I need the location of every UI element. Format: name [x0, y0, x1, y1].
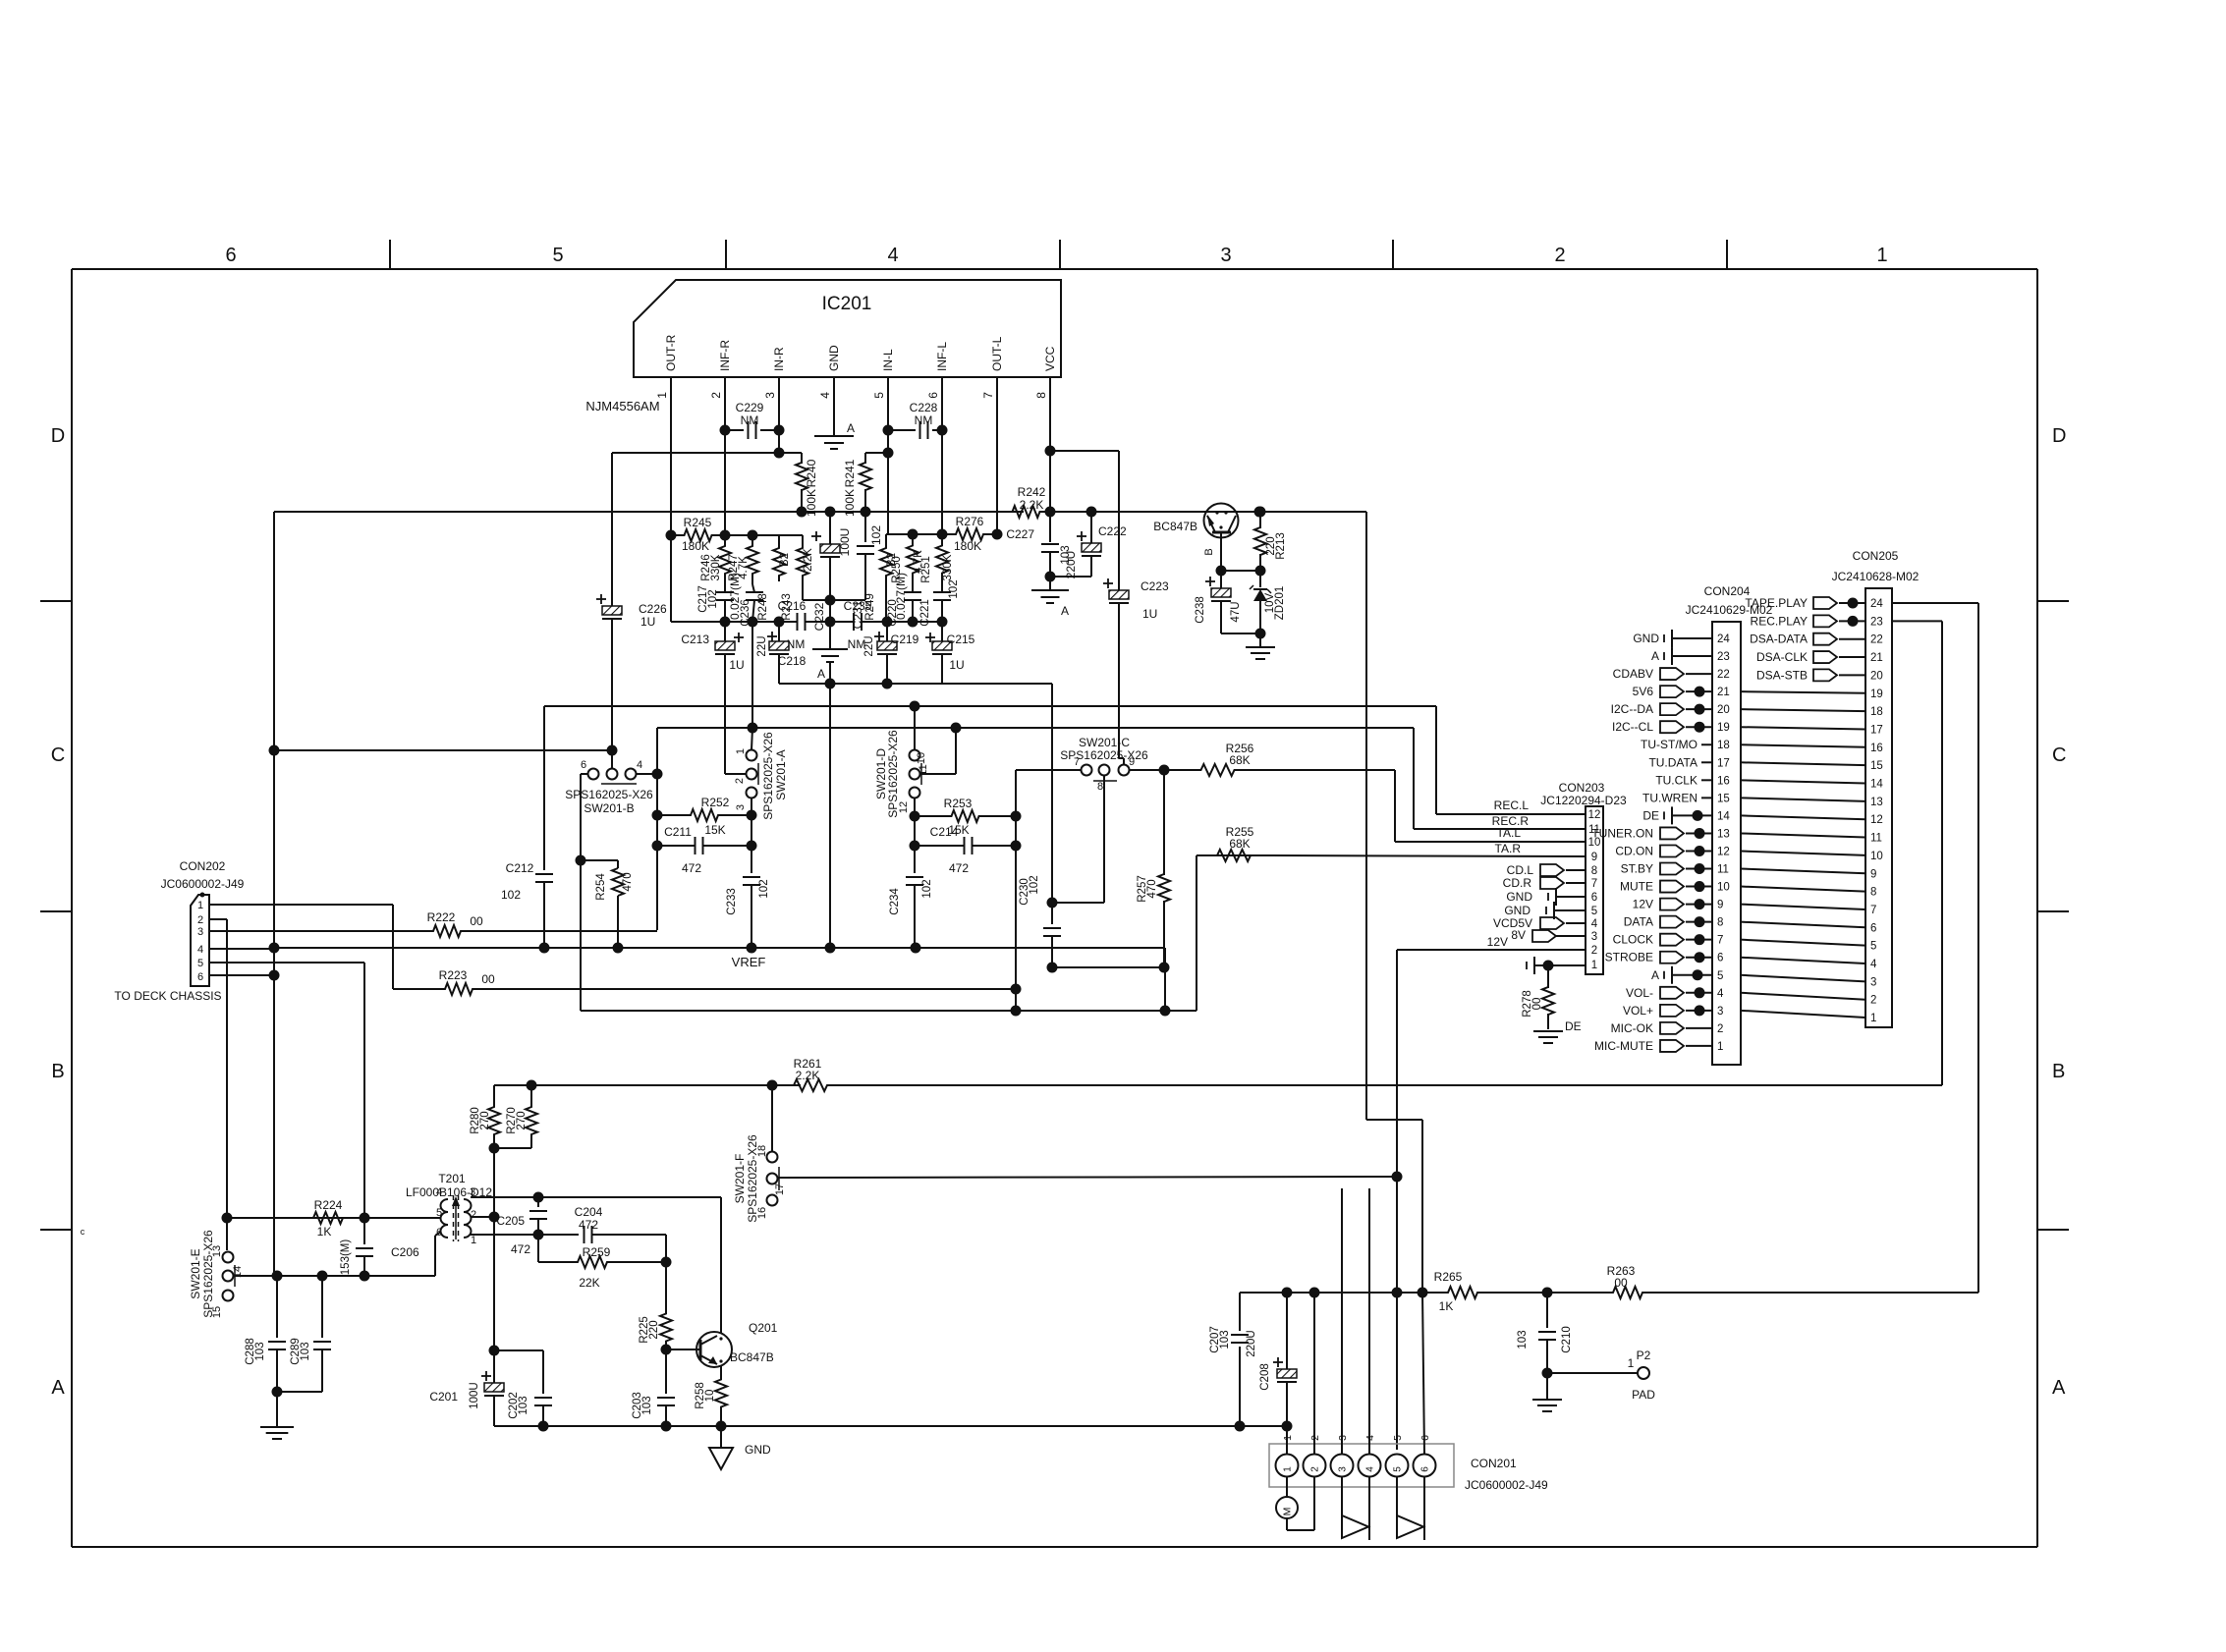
svg-text:9: 9	[1870, 868, 1876, 880]
svg-text:103: 103	[254, 1342, 266, 1360]
svg-text:472: 472	[682, 861, 701, 875]
svg-text:VCC: VCC	[1043, 346, 1057, 371]
svg-text:16: 16	[1870, 743, 1883, 754]
wire row 764	[274, 749, 612, 751]
wire pin1 OUT-R down	[670, 377, 672, 622]
svg-text:DATA: DATA	[1624, 915, 1653, 929]
svg-text:1U: 1U	[949, 658, 964, 672]
svg-text:3: 3	[1870, 976, 1876, 988]
wire SW-E p14 row	[234, 1275, 436, 1277]
capacitor C219 22U	[874, 635, 884, 637]
svg-text:R222: R222	[427, 910, 456, 924]
svg-text:1: 1	[655, 392, 669, 399]
wire R255 to TA.R	[1271, 855, 1586, 856]
svg-text:C210: C210	[1561, 1326, 1573, 1353]
svg-text:11: 11	[1870, 833, 1882, 845]
wire R265 row	[1240, 1292, 1420, 1294]
wire CON204 p18 to CON205 p16	[1741, 744, 1865, 747]
connector CON201	[1269, 1444, 1454, 1487]
capacitor C207 103	[1239, 1293, 1241, 1331]
svg-text:8: 8	[1870, 887, 1876, 899]
ground GND arrow	[720, 1426, 722, 1448]
capacitor C203 103	[665, 1349, 667, 1394]
svg-text:7: 7	[1591, 878, 1597, 890]
svg-text:REC.PLAY: REC.PLAY	[1751, 614, 1808, 628]
transistor Q201 BC847B	[696, 1332, 732, 1367]
wire VCC node to C223 line	[1050, 450, 1119, 452]
svg-text:14: 14	[1717, 810, 1730, 822]
wire SW-B p6 col down	[576, 855, 586, 866]
wire IN-R node row	[612, 452, 779, 454]
wire CON204 p7 to CON205 p5	[1741, 940, 1865, 946]
svg-text:472: 472	[579, 1218, 598, 1232]
svg-text:JC1220294-D23: JC1220294-D23	[1540, 794, 1627, 807]
svg-text:470: 470	[622, 872, 634, 891]
connector CON202	[191, 895, 209, 986]
svg-text:IN-R: IN-R	[772, 347, 786, 371]
resistor R224 1K	[295, 1212, 362, 1224]
svg-text:00: 00	[1614, 1276, 1628, 1290]
svg-text:CON203: CON203	[1559, 781, 1605, 795]
svg-text:ZD201: ZD201	[1274, 586, 1286, 621]
wire T201 pin2	[471, 1216, 494, 1218]
svg-text:C231: C231	[851, 600, 864, 629]
svg-text:SPS162025-X26: SPS162025-X26	[565, 788, 653, 801]
svg-text:103: 103	[518, 1396, 529, 1414]
wire R241 jog to pin5	[865, 452, 888, 454]
svg-text:1: 1	[471, 1235, 476, 1246]
wire CON204 p6 to CON205 p4	[1741, 958, 1865, 964]
svg-text:B: B	[1203, 548, 1215, 555]
svg-text:NM: NM	[915, 413, 933, 427]
svg-text:CD.ON: CD.ON	[1615, 844, 1653, 857]
svg-text:19: 19	[1717, 722, 1730, 734]
svg-text:23: 23	[1717, 651, 1730, 663]
svg-text:SPS162025-X26: SPS162025-X26	[1060, 748, 1148, 762]
wire CON204 p20 to CON205 p18	[1741, 709, 1865, 711]
capacitor C215 1U	[925, 636, 935, 638]
wire A column to VREF	[829, 684, 831, 948]
svg-text:5: 5	[197, 958, 203, 969]
svg-text:C238: C238	[1195, 596, 1206, 624]
wire CON204 p5 to CON205 p3	[1741, 975, 1865, 982]
wire SW-F p18	[771, 1085, 773, 1152]
svg-text:9: 9	[1717, 900, 1723, 911]
border frame and grid reference labels	[72, 268, 2037, 270]
capacitor C233 102	[751, 815, 752, 846]
svg-text:D: D	[51, 425, 65, 447]
capacitor C218 22U	[767, 635, 777, 637]
svg-text:I2C--DA: I2C--DA	[1611, 702, 1653, 716]
svg-text:13: 13	[1717, 828, 1730, 840]
svg-text:3: 3	[1220, 245, 1231, 266]
svg-text:103: 103	[300, 1342, 311, 1360]
svg-text:3: 3	[763, 392, 777, 399]
svg-text:CDABV: CDABV	[1613, 667, 1653, 681]
svg-text:102: 102	[1029, 875, 1040, 894]
svg-text:4: 4	[1591, 918, 1598, 930]
capacitor C235 NM	[853, 613, 855, 631]
svg-text:C: C	[2052, 744, 2066, 766]
svg-text:C211: C211	[664, 825, 692, 839]
svg-text:18: 18	[1717, 740, 1730, 751]
node R256 left	[1159, 765, 1170, 776]
wire SW-A p3 down	[751, 798, 752, 816]
row 544 right	[886, 533, 942, 535]
svg-text:C208: C208	[1259, 1363, 1271, 1391]
svg-text:JC0600002-J49: JC0600002-J49	[1465, 1478, 1548, 1492]
svg-text:VOL-: VOL-	[1626, 986, 1653, 1000]
wire SW-B p4 up	[656, 728, 658, 930]
capacitor C238 47U	[1220, 571, 1222, 588]
svg-text:1: 1	[735, 748, 747, 754]
svg-text:6: 6	[197, 971, 203, 983]
svg-text:180K: 180K	[682, 539, 709, 553]
svg-text:5: 5	[872, 392, 886, 399]
svg-text:GND: GND	[1633, 632, 1659, 645]
zener diode ZD201 10V	[1259, 571, 1261, 587]
svg-text:47U: 47U	[1230, 601, 1242, 622]
wire T201 pin6	[435, 1232, 441, 1236]
svg-text:CON201: CON201	[1471, 1457, 1517, 1470]
switch SW201-E	[223, 1252, 234, 1263]
svg-text:4: 4	[197, 944, 203, 956]
head arrow 1	[1341, 1477, 1343, 1516]
wire TAPE.PLAY right	[1892, 602, 1978, 604]
svg-text:470: 470	[1146, 879, 1158, 898]
wire pin3 IN-R down	[778, 377, 780, 453]
resistor R253 15K	[915, 810, 1016, 822]
svg-text:SPS162025-X26: SPS162025-X26	[886, 730, 900, 818]
capacitor C227 103	[1049, 512, 1051, 542]
wire SW-F p17 row	[778, 1177, 1398, 1178]
wire pin5 IN-L down	[887, 377, 889, 453]
row 696 A-net	[779, 683, 1052, 685]
resistor R241 100K	[864, 453, 866, 464]
wire rec rail	[494, 1084, 801, 1086]
capacitor C217 102	[716, 591, 734, 593]
svg-text:10: 10	[1870, 851, 1883, 862]
svg-text:IC201: IC201	[822, 294, 872, 314]
op-amp IC201 NJM4556AM body with pin labels	[634, 280, 1061, 377]
svg-text:3: 3	[1591, 931, 1597, 943]
svg-text:4: 4	[637, 759, 642, 771]
svg-text:68K: 68K	[1229, 837, 1250, 851]
capacitor C213 1U	[734, 636, 744, 638]
svg-text:TU.CLK: TU.CLK	[1655, 773, 1697, 787]
wire SW-C p8 down	[1103, 776, 1105, 904]
svg-text:A: A	[51, 1377, 65, 1399]
svg-text:STROBE: STROBE	[1605, 951, 1653, 964]
svg-text:R224: R224	[314, 1198, 343, 1212]
svg-text:103: 103	[641, 1396, 653, 1414]
svg-text:B: B	[2052, 1061, 2065, 1082]
wire R243 top	[779, 534, 803, 536]
svg-text:100U: 100U	[838, 528, 852, 557]
svg-text:R241: R241	[843, 459, 857, 487]
svg-text:DSA-STB: DSA-STB	[1756, 668, 1808, 682]
wire R280 R270 bottoms	[493, 1139, 495, 1217]
svg-text:330K: 330K	[710, 554, 722, 580]
ground below R278	[1533, 1030, 1563, 1032]
svg-text:3: 3	[1338, 1466, 1349, 1472]
svg-text:BC847B: BC847B	[730, 1350, 774, 1364]
svg-text:472: 472	[949, 861, 969, 875]
resistor R225 220	[665, 1262, 667, 1308]
svg-text:R242: R242	[1018, 485, 1046, 499]
capacitor C214 472	[915, 845, 964, 847]
svg-text:8: 8	[1591, 865, 1597, 877]
capacitor C226 1U	[611, 453, 613, 606]
wire R245 row ext	[725, 534, 779, 536]
wire SW-D p11 right	[920, 773, 957, 775]
resistor R258 10	[715, 1375, 727, 1411]
svg-text:DE: DE	[1642, 808, 1659, 822]
svg-text:R252: R252	[701, 796, 730, 809]
svg-text:C223: C223	[1141, 579, 1169, 593]
wire pin2 INF-R down	[724, 377, 726, 535]
resistor R257 470	[1163, 770, 1165, 875]
svg-text:A: A	[847, 421, 855, 435]
svg-text:SW201-E: SW201-E	[189, 1248, 202, 1298]
capacitor C288 103	[276, 1276, 278, 1338]
wire CON201 p2 col	[1313, 1293, 1315, 1455]
wire CON201 p6 col	[1422, 1293, 1424, 1455]
svg-text:PAD: PAD	[1632, 1388, 1655, 1402]
svg-text:12: 12	[1870, 814, 1883, 826]
capacitor C211 472	[657, 845, 695, 847]
resistor R278 00	[1547, 965, 1549, 988]
svg-text:VOL+: VOL+	[1623, 1004, 1653, 1018]
svg-text:A: A	[2052, 1377, 2066, 1399]
capacitor C221 102	[933, 591, 951, 593]
wire row 1029	[581, 1010, 1196, 1012]
wire 12V col	[1396, 950, 1398, 1450]
wire R265 to C210	[1503, 1292, 1547, 1294]
svg-text:102: 102	[501, 888, 521, 902]
svg-text:OUT-R: OUT-R	[664, 334, 678, 371]
svg-text:R265: R265	[1434, 1270, 1463, 1284]
wire Q201 collector	[720, 1332, 722, 1333]
svg-text:6: 6	[225, 245, 236, 266]
capacitor C216 NM	[797, 613, 799, 631]
svg-text:C206: C206	[391, 1245, 419, 1259]
svg-text:2.2K: 2.2K	[796, 1069, 820, 1082]
svg-text:6: 6	[1870, 922, 1876, 934]
svg-text:R245: R245	[684, 516, 712, 529]
svg-text:SW201-B: SW201-B	[584, 801, 634, 815]
svg-text:220U: 220U	[1064, 551, 1078, 579]
svg-text:REC.L: REC.L	[1494, 798, 1530, 812]
wire pin7 OUT-L down	[996, 377, 998, 534]
pad P2	[1547, 1372, 1638, 1374]
svg-text:102: 102	[869, 525, 883, 545]
capacitor C230 102	[1051, 684, 1053, 903]
wire pin2 to C229	[724, 429, 726, 431]
svg-text:5: 5	[1591, 906, 1597, 917]
svg-text:1: 1	[1876, 245, 1887, 266]
svg-text:2.2K: 2.2K	[803, 548, 814, 572]
svg-text:C215: C215	[947, 633, 975, 646]
svg-text:22K: 22K	[579, 1276, 599, 1290]
resistor R222 00	[209, 930, 424, 932]
svg-text:SW201-F: SW201-F	[733, 1154, 747, 1204]
svg-text:1K: 1K	[317, 1225, 332, 1239]
svg-text:1: 1	[1628, 1356, 1635, 1370]
svg-text:220: 220	[648, 1320, 660, 1339]
wire SW-C p9 leads	[1123, 758, 1125, 765]
wire SW-C col down	[1015, 846, 1017, 1011]
svg-text:1: 1	[197, 900, 203, 911]
capacitor C289 103	[321, 1276, 323, 1338]
svg-text:10: 10	[1717, 882, 1730, 894]
svg-text:R223: R223	[439, 968, 468, 982]
svg-text:14: 14	[1870, 779, 1883, 791]
svg-text:15K: 15K	[704, 823, 725, 837]
resistor R263 00	[1547, 1292, 1599, 1294]
svg-text:24: 24	[1717, 633, 1730, 645]
svg-text:R253: R253	[944, 797, 973, 810]
svg-text:TO DECK CHASSIS: TO DECK CHASSIS	[114, 989, 221, 1003]
capacitor C232 100U	[829, 512, 831, 544]
switch SW201-D	[910, 750, 920, 761]
wire pin1 gnd	[1526, 962, 1528, 969]
wire R255 left col	[1196, 855, 1197, 1011]
svg-text:CON205: CON205	[1853, 549, 1899, 563]
svg-text:C219: C219	[891, 633, 919, 646]
svg-text:13: 13	[1870, 797, 1883, 808]
svg-text:17: 17	[1717, 757, 1730, 769]
svg-text:2: 2	[197, 914, 203, 926]
svg-text:2.2K: 2.2K	[1020, 498, 1044, 512]
svg-text:12: 12	[1717, 846, 1730, 857]
svg-text:R240: R240	[805, 459, 818, 487]
svg-text:22U: 22U	[756, 635, 768, 656]
connector CON203	[1586, 806, 1603, 974]
svg-text:17: 17	[774, 1184, 786, 1195]
svg-text:6: 6	[926, 392, 940, 399]
svg-text:MUTE: MUTE	[1620, 880, 1653, 894]
wire T201 pin5 row R224	[227, 1217, 441, 1219]
svg-text:NM: NM	[741, 413, 759, 427]
svg-text:19: 19	[1870, 688, 1883, 700]
svg-text:A: A	[1651, 968, 1659, 982]
svg-text:12V: 12V	[1487, 935, 1508, 949]
svg-text:270: 270	[516, 1111, 528, 1129]
capacitor C212 102	[543, 706, 545, 870]
wire CON202 pin4	[209, 948, 274, 950]
svg-text:6: 6	[581, 759, 586, 771]
wire R256 to TA.L	[1271, 769, 1395, 771]
svg-text:3: 3	[197, 926, 203, 938]
svg-text:C233: C233	[726, 888, 738, 915]
svg-text:NJM4556AM: NJM4556AM	[585, 399, 659, 413]
svg-text:00: 00	[481, 972, 495, 986]
svg-text:2: 2	[1717, 1023, 1723, 1035]
svg-text:R259: R259	[583, 1245, 611, 1259]
wire C217	[724, 584, 726, 592]
svg-text:C222: C222	[1098, 524, 1127, 538]
wire CON202 pin6	[209, 974, 274, 976]
svg-text:1U: 1U	[729, 658, 744, 672]
svg-text:R276: R276	[956, 515, 984, 528]
svg-text:21: 21	[1717, 687, 1730, 698]
ground below ZD201	[1259, 633, 1261, 646]
svg-text:D: D	[2052, 425, 2066, 447]
transistor BC847B top	[1204, 504, 1239, 538]
capacitor C201 100U	[489, 1346, 500, 1356]
svg-text:4: 4	[1870, 959, 1877, 970]
svg-text:20: 20	[1870, 670, 1883, 682]
svg-text:SPS162025-X26: SPS162025-X26	[761, 732, 775, 820]
resistor R280 270	[488, 1102, 500, 1139]
svg-text:3: 3	[1717, 1006, 1723, 1018]
node R240 bus	[797, 507, 807, 518]
wire SW-D p10 top	[914, 706, 916, 750]
svg-text:C212: C212	[506, 861, 534, 875]
svg-text:4: 4	[436, 1186, 442, 1198]
svg-text:C232: C232	[812, 602, 826, 631]
wire CON202 pin1	[209, 904, 393, 906]
node Q201 base	[661, 1345, 672, 1355]
svg-text:68K: 68K	[1229, 753, 1250, 767]
svg-text:1U: 1U	[640, 615, 655, 629]
svg-text:6: 6	[1591, 892, 1597, 904]
svg-text:TU.WREN: TU.WREN	[1642, 791, 1697, 804]
svg-text:VREF: VREF	[732, 955, 766, 969]
svg-text:BC847B: BC847B	[1153, 520, 1197, 533]
svg-text:1U: 1U	[1142, 607, 1157, 621]
wire pin6 INF-L down	[941, 377, 943, 534]
svg-text:24: 24	[1870, 598, 1883, 610]
capacitor C220 0.027(M)	[904, 591, 921, 593]
svg-text:TU-ST/MO: TU-ST/MO	[1641, 738, 1697, 751]
svg-text:B2: B2	[779, 553, 791, 567]
svg-text:2: 2	[1554, 245, 1565, 266]
svg-text:18: 18	[1870, 706, 1883, 718]
node VCC bus	[1045, 507, 1056, 518]
svg-text:TUNER.ON: TUNER.ON	[1591, 826, 1653, 840]
svg-text:16: 16	[1717, 775, 1730, 787]
svg-text:INF-R: INF-R	[718, 340, 732, 371]
svg-text:8: 8	[1717, 917, 1723, 929]
svg-text:0.027(M): 0.027(M)	[894, 573, 908, 620]
svg-text:10: 10	[916, 752, 927, 764]
svg-text:7: 7	[981, 392, 995, 399]
svg-text:SW201-A: SW201-A	[774, 749, 788, 799]
svg-text:C: C	[51, 744, 65, 766]
node C232 bus	[825, 507, 836, 518]
resistor R245 180K	[670, 534, 672, 536]
svg-text:CD.R: CD.R	[1503, 876, 1532, 890]
wire CON204 p3 to CON205 p1	[1741, 1011, 1865, 1018]
node R241 bus	[861, 507, 871, 518]
svg-text:9: 9	[1591, 852, 1597, 863]
svg-text:180K: 180K	[954, 539, 981, 553]
switch SW201-B	[588, 769, 599, 780]
svg-text:DSA-CLK: DSA-CLK	[1756, 650, 1808, 664]
svg-text:103: 103	[1219, 1330, 1231, 1349]
svg-text:TA.R: TA.R	[1495, 842, 1522, 855]
capacitor C234 102	[914, 816, 916, 873]
wire CON202 pin2	[209, 918, 227, 920]
node base row	[1216, 566, 1227, 577]
svg-text:R213: R213	[1275, 532, 1287, 560]
svg-text:A: A	[817, 667, 825, 681]
wire bus to transistor	[1259, 511, 1366, 513]
connector CON204	[1712, 622, 1741, 1065]
svg-text:5V6: 5V6	[1633, 685, 1654, 698]
